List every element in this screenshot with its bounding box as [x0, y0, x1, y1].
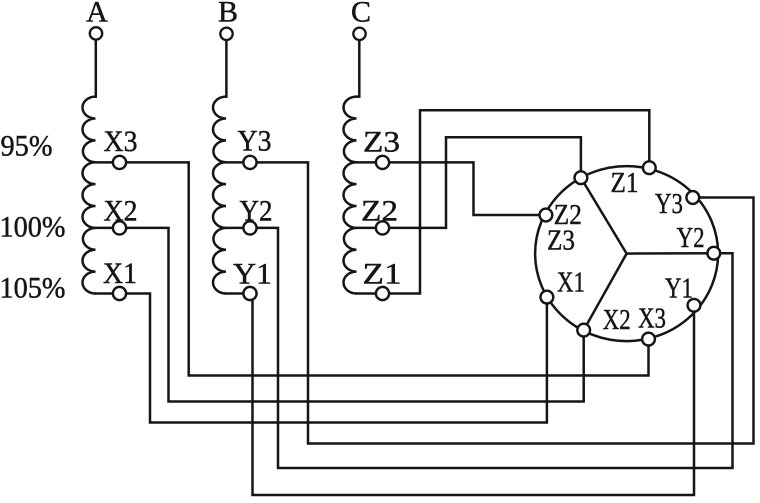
svg-text:105%: 105% — [0, 272, 66, 305]
tap X1 — [113, 287, 126, 300]
selector contact Z1 — [643, 161, 656, 174]
tap X3 — [113, 156, 126, 169]
wiper arm to Z2 — [581, 178, 627, 254]
selector contact Z3 — [540, 209, 553, 222]
svg-text:Y2: Y2 — [677, 223, 705, 254]
wiper arm to X2 — [584, 254, 627, 331]
svg-text:Z1: Z1 — [611, 168, 639, 199]
svg-text:Y1: Y1 — [665, 274, 693, 305]
wire B lead — [225, 40, 228, 96]
wire X2 tap to selector X2 — [96, 228, 584, 402]
tap Y3 — [243, 156, 256, 169]
svg-text:X3: X3 — [104, 125, 138, 158]
svg-text:X1: X1 — [103, 257, 137, 290]
svg-text:A: A — [86, 0, 108, 29]
wire Z3 tap to selector Z3 — [357, 162, 546, 215]
svg-text:Z3: Z3 — [363, 126, 400, 159]
selector contact Y3 — [686, 191, 699, 204]
wire Z2 tap to selector Z2 — [357, 137, 581, 228]
svg-text:Y2: Y2 — [240, 195, 273, 228]
svg-text:X2: X2 — [104, 195, 138, 228]
tap Y2 — [243, 221, 256, 234]
selector contact Z2 — [575, 171, 588, 184]
tap X2 — [113, 221, 126, 234]
svg-text:Z2: Z2 — [554, 200, 582, 231]
terminal B — [220, 28, 232, 40]
wire X3 tap to selector X3 — [96, 162, 649, 375]
svg-text:Y3: Y3 — [655, 189, 683, 220]
terminal C — [353, 28, 365, 40]
tap Z2 — [376, 221, 389, 234]
svg-text:Z1: Z1 — [363, 258, 402, 291]
selector contact Y2 — [707, 247, 720, 260]
winding phase A — [83, 97, 96, 294]
winding phase C — [344, 97, 357, 294]
wire Y2 tap to selector Y2 — [226, 228, 733, 468]
svg-text:B: B — [218, 0, 238, 29]
selector contact X3 — [642, 333, 655, 346]
selector contact X1 — [541, 291, 554, 304]
wire Y1 tap to selector Y1 — [226, 294, 694, 496]
svg-text:Y1: Y1 — [233, 258, 272, 291]
selector contact Y1 — [688, 299, 701, 312]
wire C lead — [357, 40, 360, 96]
winding phase B — [213, 97, 226, 294]
svg-text:X2: X2 — [603, 305, 631, 336]
wire Y3 tap to selector Y3 — [226, 162, 754, 443]
tap Y1 — [243, 287, 256, 300]
wire Z1 tap to selector Z1 — [357, 110, 650, 293]
svg-text:95%: 95% — [1, 130, 53, 163]
svg-text:X3: X3 — [638, 304, 666, 335]
selector circle — [535, 166, 718, 341]
svg-text:Y3: Y3 — [238, 125, 272, 158]
tap Z1 — [376, 287, 389, 300]
svg-text:Z2: Z2 — [361, 195, 398, 228]
tap Z3 — [376, 156, 389, 169]
wiper arm to Y2 — [627, 252, 714, 255]
selector contact X2 — [577, 324, 590, 337]
svg-text:100%: 100% — [0, 211, 66, 244]
terminal A — [90, 27, 102, 39]
wire X1 tap to selector X1 — [96, 294, 547, 423]
svg-text:X1: X1 — [557, 268, 585, 299]
wire A lead — [94, 40, 97, 97]
svg-text:C: C — [351, 0, 371, 29]
